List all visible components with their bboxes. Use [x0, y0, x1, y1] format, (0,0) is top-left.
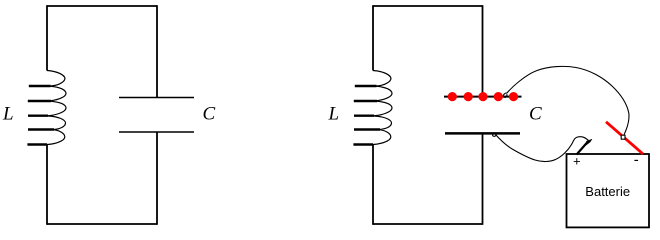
svg-text:Batterie: Batterie: [585, 184, 630, 199]
wire: C2 top plate to switch node (long arc): [507, 66, 629, 134]
svg-text:-: -: [634, 152, 639, 169]
capacitor C2 (right circuit) bottom plate: [445, 132, 520, 135]
wire: left circuit left side upper (to inductor): [46, 5, 48, 70]
switch S1 open blade (red) to battery negative terminal: [606, 122, 643, 154]
inductor L1 (left circuit) coil front turns (thick): [27, 86, 54, 145]
wire: C2 top plate hook loop: [503, 93, 507, 98]
wire: right circuit top side: [373, 5, 483, 7]
switch S2 closed blade (black) from battery positive terminal: [577, 142, 588, 155]
inductor L1 (left circuit) coil back-arcs: [47, 71, 66, 145]
capacitor C1 (left circuit) top plate: [119, 97, 194, 99]
inductor L2 (right circuit) coil front turns (thick): [353, 86, 380, 145]
wire: left circuit top side: [47, 5, 157, 7]
wire: right circuit right side lower (from capacitor): [482, 133, 484, 224]
wire: left circuit left side lower (from inductor): [46, 145, 48, 225]
wire: right circuit left side lower (from inductor): [372, 145, 374, 225]
wire: left circuit bottom side: [47, 223, 157, 225]
capacitor C2 (right circuit) top plate: [444, 96, 522, 98]
wire: left circuit right side lower (from capacitor): [156, 132, 158, 225]
node: open square terminal at switch: [621, 135, 625, 139]
switch S2 blade arrowhead: [586, 139, 592, 145]
charge dots (positive charge) on C2 top plate: [448, 92, 518, 101]
svg-text:+: +: [573, 154, 581, 169]
inductor L2 (right circuit) coil back-arcs: [373, 71, 392, 145]
svg-text:C: C: [203, 104, 216, 125]
svg-text:L: L: [328, 104, 340, 125]
wire: left circuit right side upper (to capacitor): [156, 5, 158, 97]
wire: C2 bottom plate to battery positive terminal (curvy): [496, 135, 589, 162]
svg-text:C: C: [529, 104, 542, 125]
svg-text:L: L: [2, 104, 14, 125]
capacitor C1 (left circuit) bottom plate: [119, 131, 194, 133]
wire: right circuit left side upper (to inductor): [372, 5, 374, 70]
wire: right circuit bottom side: [373, 223, 483, 225]
wire: right circuit right side upper (to capacitor): [482, 5, 484, 96]
battery BT1 box: [567, 154, 650, 227]
wire: C2 bottom plate hook loop: [493, 133, 496, 137]
